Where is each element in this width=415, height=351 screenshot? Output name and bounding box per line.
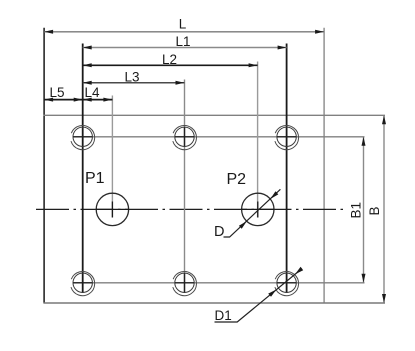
extension line P2 center <box>257 62 259 218</box>
dimension L5 <box>44 85 83 102</box>
svg-text:L5: L5 <box>49 85 64 100</box>
svg-text:D1: D1 <box>215 308 232 323</box>
plate bottom edge <box>43 302 385 304</box>
hole bottom-middle <box>173 272 197 296</box>
dimension B1 <box>349 137 366 283</box>
svg-text:L1: L1 <box>175 34 190 49</box>
extension line col1 <box>82 44 84 294</box>
dimension L4 <box>83 85 113 102</box>
hole top-middle <box>173 126 197 150</box>
hole top-left <box>71 126 95 150</box>
plate right edge <box>323 28 325 303</box>
svg-text:B: B <box>367 206 382 215</box>
svg-text:L: L <box>179 17 187 32</box>
hole top-right <box>275 126 299 150</box>
bolt row line bottom <box>73 282 364 284</box>
svg-text:P1: P1 <box>85 170 105 187</box>
dimension L <box>44 17 324 34</box>
svg-text:P2: P2 <box>227 171 247 188</box>
centerline <box>36 208 343 210</box>
svg-text:B1: B1 <box>349 202 364 219</box>
hole bottom-right <box>275 272 299 296</box>
hole bottom-left <box>71 272 95 296</box>
dimension B <box>367 115 386 303</box>
dimension L3 <box>83 69 185 84</box>
extension line P1 center <box>111 96 113 218</box>
leader D1 <box>215 267 304 323</box>
bolt row line top <box>73 136 364 138</box>
dimension L2 <box>83 52 258 67</box>
svg-text:L4: L4 <box>84 85 100 100</box>
extension line col2 <box>184 80 186 294</box>
dimension L1 <box>83 34 287 49</box>
extension line col3 <box>286 44 288 294</box>
leader D <box>214 189 280 240</box>
port P1 <box>85 170 129 226</box>
port P2 <box>227 171 275 226</box>
plate left edge <box>43 28 45 303</box>
plate top edge <box>43 114 385 116</box>
svg-text:D: D <box>214 224 224 240</box>
svg-text:L3: L3 <box>124 69 139 84</box>
svg-text:L2: L2 <box>162 52 177 67</box>
